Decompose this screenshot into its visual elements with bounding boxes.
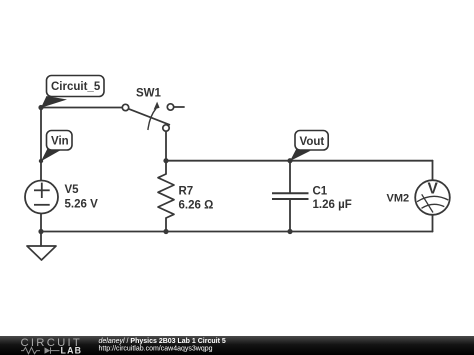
node ground junction dot <box>38 229 43 234</box>
capacitor C1 <box>272 193 309 199</box>
voltage source V5 <box>25 181 58 214</box>
logo CircuitLab <box>21 337 83 355</box>
node flag Vout <box>290 131 328 162</box>
svg-text:SW1: SW1 <box>136 88 162 100</box>
wire switch common down through node to R7 top <box>165 131 167 174</box>
svg-text:http://circuitlab.com/caw4aqys: http://circuitlab.com/caw4aqys3wqpg <box>99 346 213 353</box>
voltmeter VM2 <box>415 180 450 215</box>
wire left vertical node A to V5 top <box>40 108 42 181</box>
svg-text:V5: V5 <box>65 184 80 196</box>
svg-text:LAB: LAB <box>61 346 83 355</box>
wire bottom rail <box>41 231 433 233</box>
svg-text:Vout: Vout <box>300 136 325 148</box>
wire top-left horizontal node A to switch <box>41 107 123 109</box>
ground <box>27 246 56 260</box>
svg-text:delaneyl / Physics 2B03 Lab 1: delaneyl / Physics 2B03 Lab 1 Circuit 5 <box>99 338 226 345</box>
svg-text:VM2: VM2 <box>387 193 410 205</box>
svg-text:Vin: Vin <box>51 136 69 148</box>
wire C1 bottom vertical <box>289 199 291 232</box>
wire R7 bottom to bottom rail <box>165 218 167 232</box>
wire V5 bottom to ground node <box>40 214 42 247</box>
svg-text:V: V <box>428 180 439 197</box>
wire switch right stub <box>173 106 184 108</box>
svg-text:6.26 Ω: 6.26 Ω <box>179 200 214 212</box>
svg-text:R7: R7 <box>179 186 194 198</box>
wire VM2 top vertical <box>432 161 434 181</box>
value label C1 <box>313 185 352 211</box>
svg-text:5.26 V: 5.26 V <box>65 199 99 211</box>
wire top rail <box>166 160 433 162</box>
switch SW1 <box>122 104 173 131</box>
value label R7 <box>179 186 214 212</box>
svg-text:C1: C1 <box>313 185 328 197</box>
wire VM2 bottom vertical <box>432 215 434 232</box>
svg-text:Circuit_5: Circuit_5 <box>51 81 101 93</box>
svg-text:1.26 µF: 1.26 µF <box>313 199 352 211</box>
node C1 bottom junction dot <box>287 229 292 234</box>
node flag Vin <box>41 131 72 162</box>
resistor R7 <box>158 174 174 218</box>
wire C1 top vertical <box>289 161 291 193</box>
node Vout junction dot <box>287 158 292 163</box>
value label V5 <box>65 184 99 211</box>
node Vin dot <box>39 159 43 163</box>
node R7 bottom junction dot <box>163 229 168 234</box>
node R7 top junction dot <box>163 158 168 163</box>
node A junction dot <box>38 105 43 110</box>
node flag Circuit_5 <box>41 76 104 108</box>
